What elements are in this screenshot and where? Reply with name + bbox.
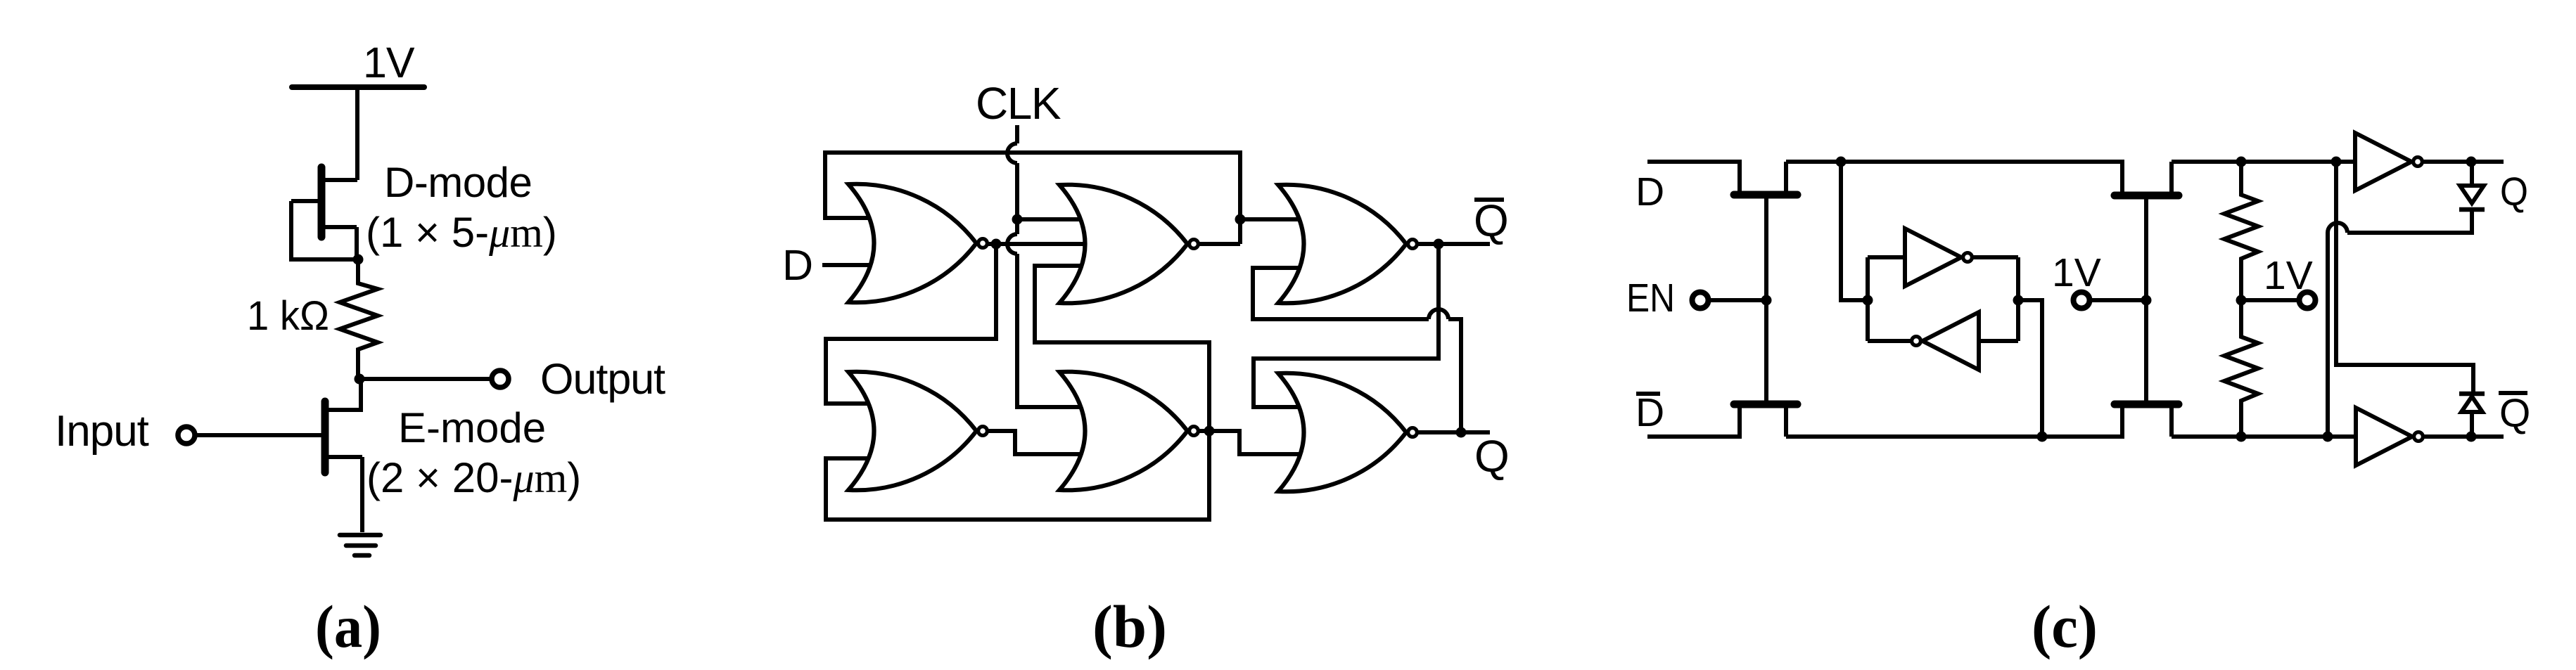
- PANEL B: [822, 125, 1490, 520]
- diode D2: [2459, 394, 2485, 412]
- resistor R3: [2224, 300, 2258, 437]
- wire top rail to diode D2: [2336, 162, 2473, 394]
- NOR gate U6: [1278, 373, 1417, 492]
- junction U5 output: [1434, 239, 1444, 250]
- svg-text:Q: Q: [2499, 391, 2530, 436]
- wire output: [359, 377, 492, 381]
- wire buffer bottom output: [2424, 434, 2504, 439]
- wire top rail feedback: [825, 153, 1240, 244]
- wire U2 output to U5 input: [1240, 217, 1316, 221]
- wire top rail to latch: [1786, 162, 2122, 195]
- junction D rail latch: [1836, 157, 1847, 167]
- wire top rail down to latch left: [1841, 162, 1868, 300]
- NOR gate U4: [1059, 372, 1198, 491]
- junction resistor top: [2236, 157, 2247, 167]
- wire U4 output: [1199, 429, 1209, 433]
- buffer U9 top: [2355, 133, 2422, 191]
- node A resistor top junction: [353, 255, 364, 265]
- svg-text:1V: 1V: [363, 39, 415, 86]
- node B output junction: [355, 374, 365, 385]
- wire output node to drain of M2: [329, 379, 361, 410]
- svg-text:D: D: [782, 241, 813, 289]
- junction latch left mid: [1863, 295, 1873, 306]
- transistor M6 pass latch bottom: [2115, 300, 2179, 437]
- junction resistor mid: [2236, 295, 2247, 306]
- wire hop to U6 output: [1448, 319, 1461, 432]
- wire 1V left to gate: [2090, 298, 2146, 302]
- diode D1: [2459, 186, 2485, 210]
- wire U4 output to U6 input: [1209, 431, 1316, 454]
- junction buffer top output diode: [2466, 157, 2477, 167]
- input terminal: [178, 427, 195, 444]
- wire EN to gates: [1709, 298, 1766, 302]
- svg-text:(c): (c): [2032, 593, 2098, 660]
- inverter U8 latch bottom: [1912, 312, 1979, 370]
- wire hop down to bottom rail: [2326, 233, 2330, 437]
- transistor M2 E-mode: [196, 401, 362, 472]
- junction U1 output: [991, 239, 1002, 250]
- svg-text:E-mode: E-mode: [398, 404, 546, 451]
- inverter U7 latch top: [1905, 228, 1972, 286]
- resistor R2: [2224, 162, 2258, 300]
- svg-text:(2 × 20-μm): (2 × 20-μm): [366, 454, 581, 501]
- wire U1 output to U2 input: [988, 242, 1097, 246]
- wire U3 output to U4 input: [988, 431, 1097, 454]
- svg-text:Input: Input: [55, 407, 149, 456]
- wire CLK hop over U1 output: [1007, 234, 1017, 254]
- wire bottom rail to latch: [1786, 404, 2122, 437]
- junction latch tap bottom: [2037, 432, 2048, 442]
- wire Dbar input rail: [1647, 404, 1740, 437]
- junction U2 output: [1235, 214, 1246, 225]
- wire U2 lower input from U4 output: [826, 266, 1209, 520]
- wire CLK stub: [1015, 125, 1019, 143]
- wire D1 to bottom rail crossover: [2347, 210, 2472, 233]
- wire source of M2 to ground: [360, 457, 364, 532]
- wire CLK to U4 input: [1017, 254, 1097, 407]
- wire latch loop right: [2016, 257, 2020, 341]
- wire CLK hop over top rail: [1007, 143, 1017, 163]
- output terminal: [492, 371, 509, 387]
- junction gate 1V node: [2141, 295, 2152, 306]
- wire U5 output to U6 input: [1254, 244, 1439, 407]
- svg-text:(b): (b): [1092, 593, 1167, 660]
- svg-text:D-mode: D-mode: [384, 159, 532, 206]
- svg-text:Q: Q: [2500, 169, 2528, 214]
- wire latch loop left: [1866, 257, 1870, 341]
- wire latch top left: [1868, 255, 1905, 259]
- buffer U10 bottom: [2356, 408, 2423, 465]
- wire top rail right: [2172, 160, 2354, 164]
- wire hop over U5 down wire: [1429, 309, 1448, 319]
- resistor R1 1 kOhm: [340, 259, 378, 379]
- junction U6 output: [1456, 427, 1467, 438]
- NOR gate U2: [1059, 185, 1198, 304]
- wire U2 output: [1199, 242, 1240, 246]
- svg-text:(a): (a): [315, 593, 381, 660]
- wire U6 output to U5 input: [1253, 268, 1429, 319]
- wire U1 output to U3 input: [826, 244, 996, 404]
- terminal 1V left: [2074, 292, 2090, 309]
- wire rail to drain: [355, 87, 359, 180]
- label Qbar top: [1474, 195, 1509, 246]
- NOR gate U3: [848, 372, 987, 491]
- svg-text:D: D: [1635, 169, 1664, 214]
- svg-text:1V: 1V: [2052, 250, 2101, 295]
- wire CLK down: [1015, 163, 1019, 234]
- label Qbar panel c: [2499, 391, 2530, 436]
- junction buffer bottom output diode: [2466, 432, 2477, 442]
- PANEL A: [178, 87, 509, 555]
- power rail 1V: [292, 84, 424, 90]
- wire latch top right: [1973, 255, 2018, 259]
- wire D2 to Qbar output: [2470, 413, 2474, 437]
- NOR gate U1: [848, 184, 987, 303]
- transistor M3 pass D: [1734, 162, 1797, 300]
- wire D input rail: [1647, 162, 1740, 195]
- wire resistor node to 1V right: [2241, 298, 2299, 302]
- wire source of M1 down: [355, 227, 359, 259]
- wire latch tap to bottom rail: [2018, 300, 2042, 437]
- svg-text:(1 × 5-μm): (1 × 5-μm): [366, 209, 557, 256]
- transistor M4 pass Dbar: [1734, 300, 1797, 437]
- svg-text:D: D: [1635, 390, 1664, 435]
- junction CLK U2: [1012, 214, 1023, 225]
- wire D input: [822, 263, 879, 267]
- junction crossover bottom rail: [2323, 432, 2333, 442]
- svg-text:Q: Q: [1474, 195, 1509, 246]
- transistor M5 pass latch top: [2115, 162, 2179, 300]
- terminal EN: [1692, 292, 1709, 309]
- wire gate wrap of M1: [291, 201, 358, 259]
- wire to diode D1: [2470, 162, 2474, 184]
- wire latch bottom right: [1979, 339, 2018, 343]
- NOR gate U5: [1278, 185, 1417, 304]
- terminal 1V right: [2300, 292, 2316, 309]
- wire U5 output to Qbar: [1418, 242, 1490, 246]
- label Dbar: [1635, 390, 1664, 435]
- svg-text:CLK: CLK: [976, 78, 1061, 129]
- wire CLK to U2 input: [1017, 217, 1097, 221]
- PANEL C: [1647, 162, 2504, 437]
- junction resistor bottom: [2236, 432, 2247, 442]
- junction top rail Qbar branch: [2331, 157, 2342, 167]
- svg-text:1 kΩ: 1 kΩ: [247, 293, 329, 339]
- wire hop over Qbar wire: [2328, 223, 2347, 233]
- wire latch bottom left: [1868, 339, 1911, 343]
- svg-text:1V: 1V: [2264, 253, 2313, 298]
- wire U6 output to Q: [1418, 430, 1490, 434]
- junction latch right mid: [2013, 295, 2024, 306]
- junction EN gates: [1761, 295, 1772, 306]
- junction U4 output: [1204, 426, 1215, 437]
- wire buffer top output: [2423, 160, 2504, 164]
- wire bottom rail right: [2172, 434, 2354, 439]
- svg-text:EN: EN: [1626, 276, 1675, 321]
- transistor M1 D-mode: [291, 167, 357, 237]
- svg-text:Q: Q: [1474, 431, 1510, 482]
- svg-text:Output: Output: [540, 355, 665, 403]
- ground: [340, 535, 381, 555]
